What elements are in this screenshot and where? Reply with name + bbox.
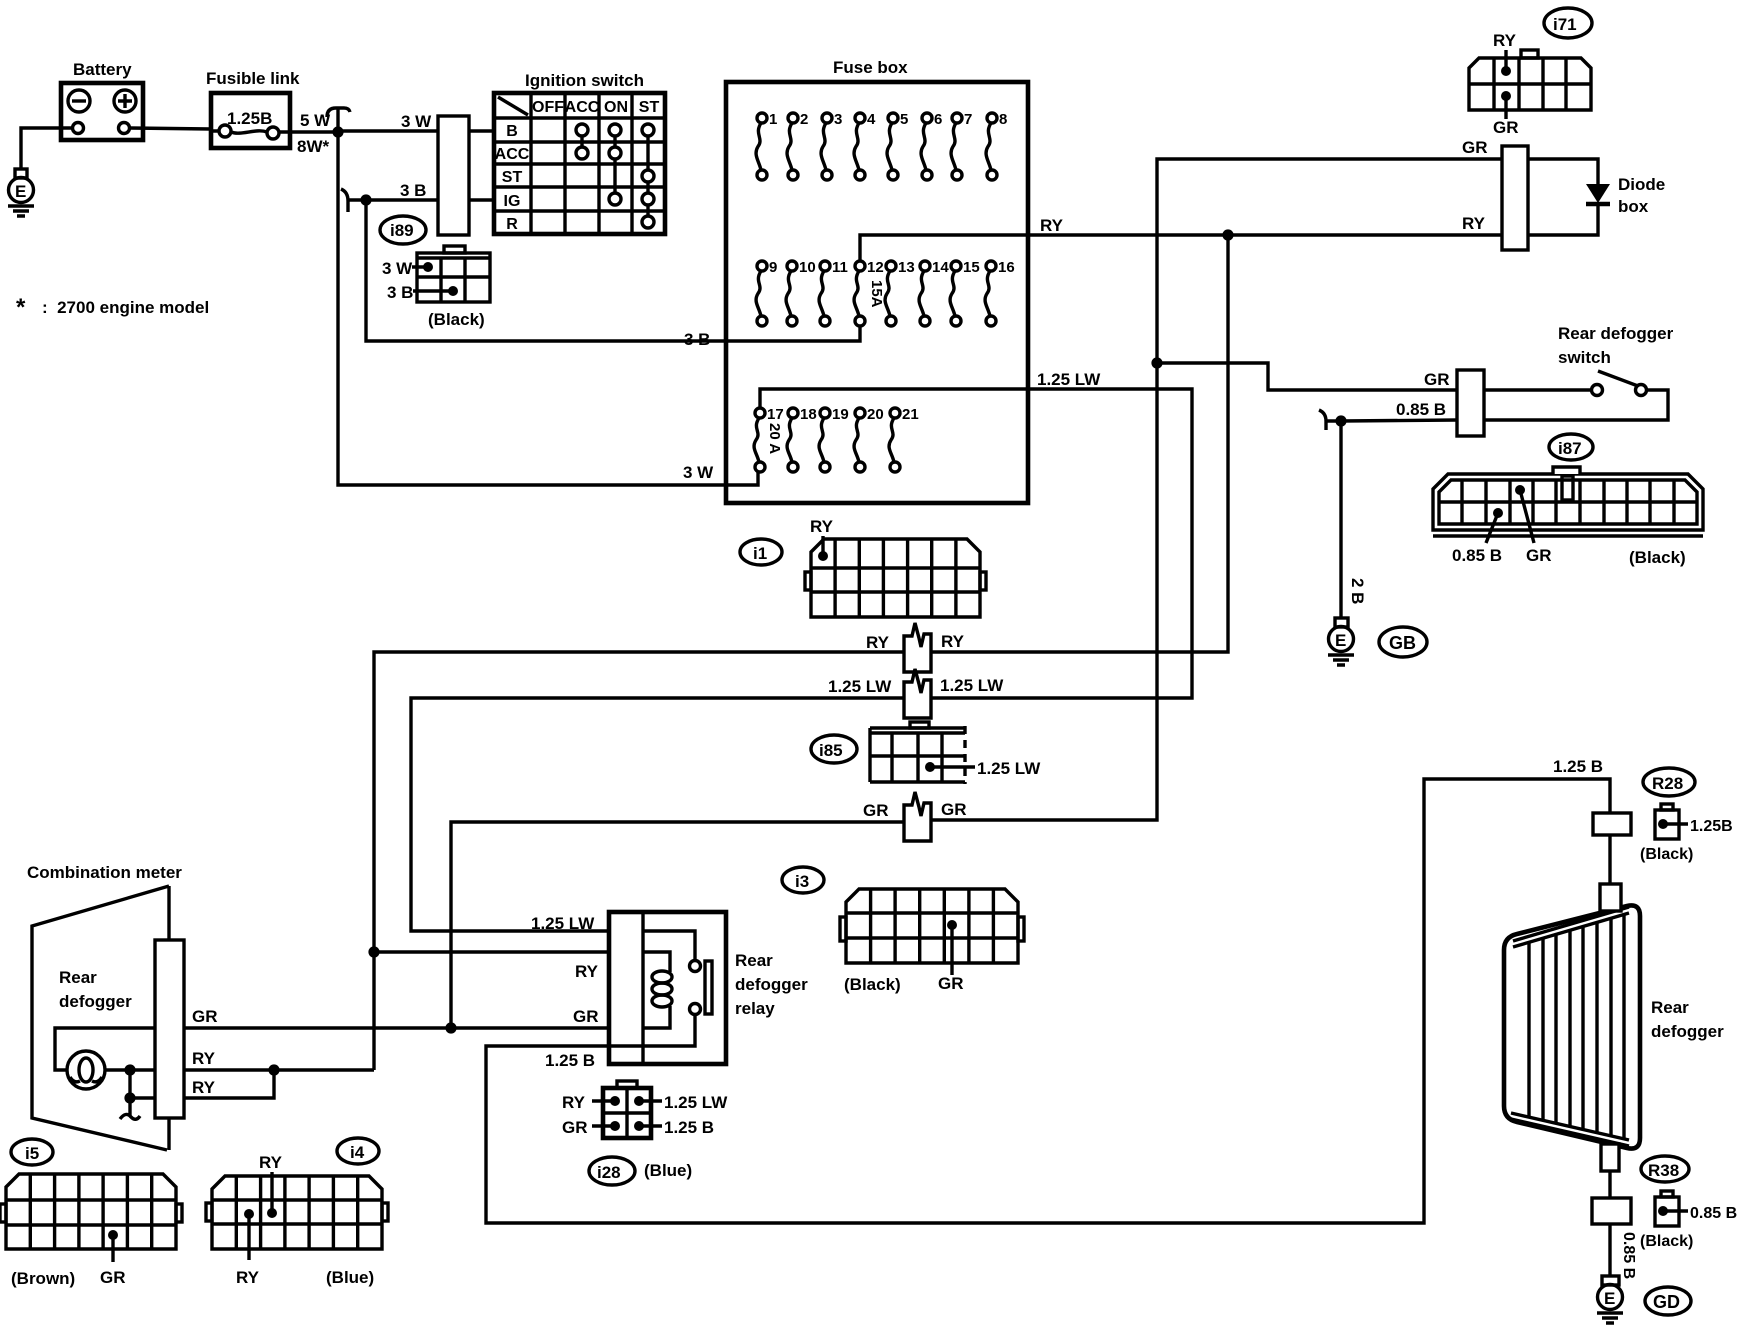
svg-text:ACC: ACC <box>565 99 600 116</box>
wire lamp to ground tick <box>128 1070 131 1116</box>
svg-text:0.85 B: 0.85 B <box>1452 546 1502 565</box>
node 5W/8W junction <box>332 126 343 137</box>
svg-text:GD: GD <box>1653 1292 1680 1312</box>
svg-text:2: 2 <box>800 111 808 128</box>
svg-text:1.25 LW: 1.25 LW <box>828 677 892 696</box>
svg-text:i89: i89 <box>390 221 414 240</box>
oval GB <box>1379 627 1427 657</box>
node 0.85B/2B junction <box>1335 415 1346 426</box>
svg-text:RY: RY <box>810 517 834 536</box>
connector pin box R38 (Black) <box>1640 1191 1737 1250</box>
wire 0.85B R38 to ground <box>1608 1224 1611 1276</box>
svg-text:Rear: Rear <box>1651 998 1689 1017</box>
svg-text:OFF: OFF <box>532 99 564 116</box>
connector i1 <box>805 517 986 617</box>
svg-text:RY: RY <box>562 1093 586 1112</box>
svg-text:Battery: Battery <box>73 60 132 79</box>
svg-text:1: 1 <box>769 111 777 128</box>
wire GR branch to defogger switch <box>1157 363 1457 390</box>
svg-text:RY: RY <box>192 1049 216 1068</box>
svg-text:18: 18 <box>800 406 817 423</box>
svg-text:i1: i1 <box>753 544 767 563</box>
svg-text:(Blue): (Blue) <box>644 1161 692 1180</box>
wire battery positive to fusible link <box>130 128 219 131</box>
battery <box>61 60 143 140</box>
ground E (rear defogger) <box>1597 1276 1623 1323</box>
svg-text:E: E <box>1335 631 1346 650</box>
wire GR splice to relay and meter <box>451 822 904 1028</box>
svg-text:ACC: ACC <box>495 146 530 163</box>
wire 1.25B relay to rear defogger feed <box>486 779 1610 1223</box>
svg-text:6: 6 <box>934 111 942 128</box>
svg-text:RY: RY <box>575 962 599 981</box>
svg-text:i28: i28 <box>597 1163 621 1182</box>
svg-text:1.25B: 1.25B <box>1690 818 1733 835</box>
svg-text:i3: i3 <box>795 872 809 891</box>
svg-text:3 B: 3 B <box>684 330 710 349</box>
svg-text:4: 4 <box>867 111 876 128</box>
svg-text:(Black): (Black) <box>1629 548 1686 567</box>
switch S1 <box>1484 371 1668 420</box>
oval i71 <box>1544 8 1592 38</box>
svg-text:RY: RY <box>259 1153 283 1172</box>
svg-text:0.85 B: 0.85 B <box>1620 1232 1637 1279</box>
wire RY to relay <box>374 950 643 953</box>
harness hook (0.85B) <box>1319 410 1341 430</box>
connector i89 detail (Black) <box>382 246 490 329</box>
svg-text:RY: RY <box>236 1268 260 1287</box>
svg-text:3 B: 3 B <box>387 283 413 302</box>
svg-text:RY: RY <box>1462 214 1486 233</box>
svg-text:0.85 B: 0.85 B <box>1690 1205 1737 1222</box>
svg-text:3 W: 3 W <box>401 112 432 131</box>
wire 3W long run to fuse box (fuse 17) <box>338 132 758 485</box>
oval i85 <box>811 735 857 763</box>
connector R28 harness <box>1593 813 1631 835</box>
wire GR diode box to switch and splice <box>931 159 1502 820</box>
svg-text:1.25 LW: 1.25 LW <box>940 676 1004 695</box>
wire battery negative to ground <box>21 128 72 169</box>
oval i1 <box>740 539 782 565</box>
svg-text:14: 14 <box>932 259 949 276</box>
svg-text:switch: switch <box>1558 348 1611 367</box>
svg-text:3 W: 3 W <box>683 463 714 482</box>
combination meter outline <box>27 863 182 1150</box>
svg-text:ON: ON <box>604 99 628 116</box>
svg-text:8: 8 <box>999 111 1007 128</box>
svg-text:E: E <box>1604 1289 1615 1308</box>
svg-text:R38: R38 <box>1648 1161 1679 1180</box>
connector pin box R28 (Black) <box>1640 804 1733 863</box>
wire GR meter <box>55 1028 451 1070</box>
oval i3 <box>782 867 824 893</box>
wire 3W node to connector i89 <box>338 129 438 132</box>
svg-text:15: 15 <box>963 259 980 276</box>
oval i87 <box>1549 434 1593 460</box>
wire fusible link to node <box>279 130 338 133</box>
svg-text:RY: RY <box>1493 31 1517 50</box>
wire 1.25LW splice to relay <box>411 698 904 931</box>
svg-text:1.25 LW: 1.25 LW <box>531 914 595 933</box>
wire i89 to ignition switch B <box>469 129 494 132</box>
svg-text:8W*: 8W* <box>297 137 330 156</box>
svg-text:IG: IG <box>504 193 521 210</box>
splice RY <box>866 623 965 672</box>
svg-text:GR: GR <box>1493 118 1519 137</box>
svg-text:1.25 B: 1.25 B <box>545 1051 595 1070</box>
svg-text:Combination meter: Combination meter <box>27 863 182 882</box>
wire 1.25LW fuse 17 to splice <box>760 389 1192 698</box>
oval i4 <box>337 1138 379 1164</box>
lamp rear defogger indicator <box>67 1051 105 1089</box>
svg-text:relay: relay <box>735 999 775 1018</box>
svg-text:(Black): (Black) <box>1640 846 1693 863</box>
svg-text:E: E <box>15 182 26 201</box>
svg-text:Fusible link: Fusible link <box>206 69 300 88</box>
svg-text:17: 17 <box>767 406 784 423</box>
rear defogger grid element <box>1504 884 1724 1171</box>
harness continuation cap <box>327 108 350 130</box>
svg-text:i71: i71 <box>1553 15 1577 34</box>
svg-text:defogger: defogger <box>1651 1022 1724 1041</box>
svg-text:3 W: 3 W <box>382 259 413 278</box>
svg-text:5: 5 <box>900 111 908 128</box>
svg-text:GR: GR <box>1424 370 1450 389</box>
svg-text:10: 10 <box>799 259 816 276</box>
fuse box <box>726 58 1028 503</box>
svg-text:GR: GR <box>1462 138 1488 157</box>
svg-text:GR: GR <box>863 801 889 820</box>
node RY branch <box>1222 229 1233 240</box>
node RY branch at meter <box>268 1064 279 1075</box>
svg-text:11: 11 <box>832 259 848 276</box>
ignition switch <box>494 71 665 234</box>
svg-text:Rear defogger: Rear defogger <box>1558 324 1674 343</box>
connector (meter harness) <box>155 940 184 1118</box>
svg-text:RY: RY <box>866 633 890 652</box>
wire 3B long run to fuse box (fuse 12) <box>366 200 860 341</box>
svg-text:0.85 B: 0.85 B <box>1396 400 1446 419</box>
svg-text:GR: GR <box>941 800 967 819</box>
wire 0.85B switch to ground node <box>1341 420 1457 421</box>
connector R38 harness <box>1592 1198 1631 1224</box>
splice 1.25LW <box>828 669 1004 718</box>
svg-text:R: R <box>506 216 518 233</box>
node GR branch <box>1151 357 1162 368</box>
svg-text:12: 12 <box>867 259 884 276</box>
svg-text:i5: i5 <box>25 1144 39 1163</box>
wire RY fuse 12 to diode box connector <box>860 235 1502 261</box>
svg-text:ST: ST <box>639 99 660 116</box>
svg-text:16: 16 <box>998 259 1015 276</box>
svg-text:GB: GB <box>1389 633 1416 653</box>
svg-text:RY: RY <box>192 1078 216 1097</box>
svg-text:i85: i85 <box>819 741 843 760</box>
svg-text:1.25 LW: 1.25 LW <box>1037 370 1101 389</box>
svg-text:: 2700 engine model: : 2700 engine model <box>42 298 209 317</box>
svg-text:Diode: Diode <box>1618 175 1665 194</box>
svg-text:1.25 LW: 1.25 LW <box>977 759 1041 778</box>
svg-text:defogger: defogger <box>735 975 808 994</box>
oval i89 <box>380 216 426 244</box>
svg-text:20 A: 20 A <box>766 423 783 454</box>
wire defogger to R38 <box>1608 1171 1611 1198</box>
connector i5 (Brown) <box>0 1174 182 1288</box>
svg-text:Ignition switch: Ignition switch <box>525 71 644 90</box>
connector i85 <box>870 722 1041 784</box>
svg-text:i4: i4 <box>350 1143 365 1162</box>
wire GR to relay <box>451 1026 643 1029</box>
svg-text:*: * <box>16 294 26 321</box>
svg-text:GR: GR <box>100 1268 126 1287</box>
svg-text:i87: i87 <box>1558 439 1582 458</box>
svg-text:7: 7 <box>964 111 972 128</box>
wire 3B node to connector i89 <box>366 198 438 201</box>
rear defogger relay <box>609 912 808 1064</box>
svg-text:defogger: defogger <box>59 992 132 1011</box>
svg-text:21: 21 <box>902 406 919 423</box>
svg-text:R28: R28 <box>1652 774 1683 793</box>
svg-text:GR: GR <box>938 974 964 993</box>
oval i28 <box>589 1157 692 1185</box>
svg-text:(Brown): (Brown) <box>11 1269 75 1288</box>
svg-text:(Black): (Black) <box>844 975 901 994</box>
svg-text:GR: GR <box>1526 546 1552 565</box>
connector i3 (Black) <box>840 889 1024 994</box>
svg-text:Rear: Rear <box>735 951 773 970</box>
fusible link <box>206 69 300 148</box>
svg-text:5 W: 5 W <box>300 111 331 130</box>
connector i71 <box>1469 31 1591 137</box>
oval R28 <box>1643 768 1695 796</box>
svg-text:1.25 LW: 1.25 LW <box>664 1093 728 1112</box>
wire RY splice to relay and meter <box>374 652 904 952</box>
svg-text:3 B: 3 B <box>400 181 426 200</box>
connector i87 (Black) <box>1433 467 1703 567</box>
svg-text:3: 3 <box>834 111 842 128</box>
splice GR <box>863 792 967 841</box>
svg-text:19: 19 <box>832 406 849 423</box>
svg-text:ST: ST <box>502 169 523 186</box>
wire RY meter <box>105 952 374 1070</box>
svg-text:20: 20 <box>867 406 884 423</box>
svg-text:box: box <box>1618 197 1649 216</box>
svg-text:1.25 B: 1.25 B <box>664 1118 714 1137</box>
connector i4 (Blue) <box>206 1153 388 1287</box>
connector i89 (pass-through) <box>438 116 469 235</box>
svg-text:B: B <box>506 123 518 140</box>
wire 2B to ground <box>1339 421 1342 618</box>
svg-text:2 B: 2 B <box>1348 578 1367 604</box>
svg-text:(Black): (Black) <box>428 310 485 329</box>
svg-text:13: 13 <box>898 259 915 276</box>
ground E (2B) <box>1328 618 1354 665</box>
oval GD <box>1645 1287 1691 1315</box>
ground E (battery) <box>8 169 34 216</box>
diode D1 <box>1528 159 1665 235</box>
svg-text:(Black): (Black) <box>1640 1233 1693 1250</box>
connector (switch harness) <box>1457 370 1484 436</box>
oval R38 <box>1641 1156 1689 1182</box>
wire RY second branch <box>130 1070 274 1098</box>
ground tick (meter) <box>120 1114 140 1119</box>
svg-text:9: 9 <box>769 259 777 276</box>
svg-text:15A: 15A <box>868 280 885 308</box>
wire R28 to defogger grid <box>1608 835 1611 886</box>
svg-text:(Blue): (Blue) <box>326 1268 374 1287</box>
wire RY branch down to splice <box>931 235 1228 652</box>
svg-text:Rear: Rear <box>59 968 97 987</box>
connector i28 (Blue) <box>562 1081 728 1138</box>
svg-text:GR: GR <box>562 1118 588 1137</box>
oval i5 <box>11 1139 53 1165</box>
svg-text:GR: GR <box>192 1007 218 1026</box>
svg-text:Fuse box: Fuse box <box>833 58 908 77</box>
harness hook (3B wire start) <box>341 189 348 212</box>
svg-text:1.25 B: 1.25 B <box>1553 757 1603 776</box>
connector (diode box harness) <box>1502 146 1528 250</box>
node 3B junction <box>348 198 366 201</box>
svg-text:RY: RY <box>1040 216 1064 235</box>
svg-text:1.25B: 1.25B <box>227 109 272 128</box>
wire i89 to ignition switch IG <box>469 198 494 201</box>
node lamp/ground <box>124 1064 135 1075</box>
svg-text:GR: GR <box>573 1007 599 1026</box>
svg-text:RY: RY <box>941 632 965 651</box>
